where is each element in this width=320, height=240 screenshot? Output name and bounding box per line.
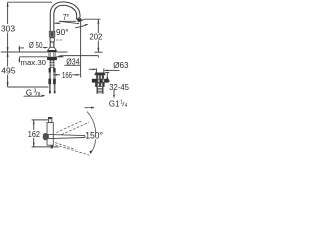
arrow max30 down (19, 48, 21, 52)
svg-text:303: 303 (1, 23, 15, 33)
max.30 top tick (21, 47, 25, 49)
waste extension line left (95, 68, 97, 72)
arrow G38 (41, 95, 45, 97)
hose tail left (48, 84, 51, 90)
aerator (77, 18, 82, 22)
arrow 202 bottom (97, 48, 99, 52)
waste flange (92, 79, 109, 83)
arrow dia50 (45, 47, 49, 49)
90-degree leader line (55, 22, 61, 24)
svg-text:166: 166 (62, 70, 72, 80)
threaded hose block (50, 60, 55, 68)
arrow dia63 (104, 70, 108, 72)
spout inner arc (54, 5, 77, 47)
swivel dashed line upper A (56, 121, 82, 133)
swivel arc top arrow line (85, 107, 94, 109)
knob circle (50, 38, 55, 43)
plan view body (47, 123, 53, 146)
svg-text:G: G (26, 88, 32, 98)
dia50 leader line (43, 47, 46, 49)
svg-text:G1: G1 (109, 98, 120, 108)
arrowheads (7, 2, 115, 147)
waste left arrow tail (89, 68, 96, 70)
plan view foot (51, 145, 53, 148)
counter top line right (56, 51, 67, 53)
lever detail on column (49, 31, 55, 37)
7-degree arc arrow (75, 24, 87, 28)
aerator extension line (80, 21, 82, 78)
dia63 leader line (105, 69, 120, 71)
waste extension line right (103, 68, 105, 72)
162 top extension line (32, 119, 49, 121)
arrow 495 top (7, 52, 9, 57)
32-45 dimension line (106, 73, 108, 81)
svg-text:4: 4 (125, 103, 128, 109)
7-degree reference line (59, 20, 76, 22)
base trapezoid (48, 47, 57, 50)
waste threaded body (95, 83, 104, 87)
hose left (49, 73, 50, 79)
dimension 495 line (7, 52, 9, 66)
arrow 166 left (53, 74, 57, 76)
arrow 202 top (97, 19, 99, 23)
svg-text:7°: 7° (63, 13, 69, 22)
plan view knob (48, 117, 52, 122)
arrow 303 top (7, 2, 9, 7)
162 dimension line (33, 120, 35, 130)
mounting nut (47, 57, 57, 60)
arrow G114 down (113, 95, 115, 99)
plan view spout bar (47, 134, 85, 138)
hose tail right (53, 84, 56, 90)
hose nut left (48, 79, 51, 85)
arrow 495 bottom (7, 82, 9, 87)
max.30 dimension line lower (18, 57, 20, 62)
svg-text:90°: 90° (56, 27, 69, 37)
202 top extension line (81, 19, 100, 20)
hose cap left (49, 91, 51, 94)
arrow 162 top (33, 120, 35, 124)
arrow 90deg (54, 22, 58, 24)
svg-text:202: 202 (89, 32, 102, 42)
dia34 end tick (97, 56, 99, 58)
dia34 leader arrow line (59, 55, 64, 58)
swivel dashed line upper B (62, 122, 90, 134)
swivel arc top arrowhead (91, 107, 95, 109)
svg-text:8: 8 (38, 92, 41, 98)
32-45 bottom tick (105, 80, 110, 82)
waste plug cap (94, 73, 105, 76)
counter top extension line left (1, 51, 48, 53)
32-45 top tick (105, 72, 109, 74)
waste stem (96, 75, 104, 79)
166 dimension line (53, 74, 60, 76)
hose fitting right (53, 68, 55, 73)
plan spout dark section (47, 135, 49, 138)
202 bottom tick (95, 51, 103, 53)
dia34 shelf line (63, 55, 98, 57)
svg-text:32-45: 32-45 (109, 82, 129, 92)
7-degree slanted line (59, 21, 79, 23)
162 bottom extension line (32, 146, 59, 148)
base escutcheon (47, 50, 56, 52)
svg-text:Ø 50: Ø 50 (29, 40, 43, 50)
arrow dia34 (58, 55, 63, 57)
counter bottom line right (56, 56, 63, 58)
spout outer arc (50, 2, 80, 47)
svg-text:Ø34: Ø34 (66, 57, 80, 67)
svg-text:max.30: max.30 (21, 58, 47, 67)
svg-text:Ø63: Ø63 (113, 60, 129, 70)
hose nut right (53, 79, 56, 85)
arrow 162 bottom (33, 143, 35, 147)
arrow 166 right (76, 74, 80, 76)
hose cap right (54, 91, 56, 94)
svg-text:162: 162 (28, 129, 40, 139)
swivel dashed line lower C (55, 143, 75, 150)
swivel dashed line lower D (55, 145, 89, 155)
hose fitting left (49, 68, 51, 73)
knob axis dashes (56, 39, 62, 41)
waste tail pipe (97, 87, 103, 94)
max.30 dimension line upper (18, 46, 20, 52)
arrow 303 bottom (7, 47, 9, 52)
swivel arc bottom arrowhead (90, 151, 93, 154)
arrow max30 up (19, 57, 21, 61)
dimension 303 line (7, 2, 9, 24)
hose right (54, 73, 55, 79)
column below knob (50, 42, 54, 47)
spout outlet cut (77, 17, 80, 19)
top extension line (8, 1, 52, 3)
495 bottom extension line (8, 86, 49, 88)
G38 leader line (24, 95, 44, 97)
counter bottom line left (19, 56, 47, 58)
G114 leader line (113, 90, 115, 97)
svg-text:495: 495 (1, 66, 16, 76)
202 dimension line (97, 19, 99, 33)
svg-text:150°: 150° (85, 131, 103, 141)
arrow 7deg arc (85, 24, 88, 26)
dia34 bottom line (64, 64, 80, 66)
arrow 32-45 down (106, 77, 108, 81)
shank through counter (49, 52, 55, 57)
arrow waste left (93, 69, 97, 71)
plan view ellipse end (43, 133, 47, 140)
swivel arc (87, 112, 96, 153)
